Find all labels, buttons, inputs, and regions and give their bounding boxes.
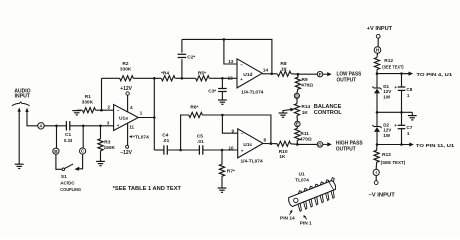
wire to C4 [154,149,164,151]
svg-text:−: − [240,62,243,67]
svg-text:1W: 1W [383,133,391,138]
node C [80,148,86,154]
resistor R5 [182,77,196,79]
svg-text:COUPLING: COUPLING [60,187,81,192]
svg-text:.01: .01 [163,138,170,144]
svg-text:OUTPUT: OUTPUT [337,77,357,83]
resistor R11 [296,140,298,144]
svg-text:R11: R11 [300,131,309,137]
svg-text:12V: 12V [383,89,392,94]
svg-text:0.33: 0.33 [64,138,73,143]
svg-text:12V: 12V [383,128,392,133]
resistor R10 [277,141,291,146]
wire U1d pin 13 [224,39,237,64]
node I [373,169,379,175]
svg-text:2: 2 [108,104,111,109]
junction [153,116,156,119]
wire to node G [297,143,317,145]
svg-text:R1: R1 [85,94,91,100]
svg-text:C3*: C3* [208,88,216,94]
svg-text:(SEE TEXT): (SEE TEXT) [381,160,406,165]
wire +12V rail [377,73,409,75]
wire U1d output [262,73,272,75]
svg-text:13: 13 [228,59,234,64]
svg-text:−V INPUT: −V INPUT [368,192,395,198]
resistor R8 [272,73,278,75]
svg-text:D2: D2 [383,122,389,127]
svg-text:C7: C7 [406,125,412,130]
svg-text:1: 1 [140,111,143,116]
svg-text:TO PIN 4, U1: TO PIN 4, U1 [416,72,452,78]
resistor R9 [297,74,299,77]
junction [55,125,58,128]
ground [15,163,24,165]
svg-text:E: E [296,122,299,127]
ground [218,99,227,101]
-V input terminal [375,176,377,181]
ground [96,160,105,162]
svg-text:U1: U1 [299,172,305,177]
zener D1 [376,74,378,88]
svg-text:U1d: U1d [243,72,252,78]
capacitor C7 [401,112,403,125]
low pass output arrow [323,73,329,75]
potentiometer R14 [296,98,298,103]
svg-text:OUTPUT: OUTPUT [336,147,356,153]
junction [400,143,403,146]
ground [279,112,288,114]
svg-text:+12V: +12V [120,86,132,92]
svg-text:+: + [241,149,244,154]
junction [221,77,224,80]
svg-text:G: G [318,142,322,147]
resistor R1 [72,110,81,112]
svg-text:R10: R10 [279,149,288,155]
junction [270,142,273,145]
svg-text:8: 8 [264,138,267,143]
ground [411,112,413,115]
wire R2 branch vertical [101,78,103,110]
svg-text:1K: 1K [279,154,286,160]
resistor R6 [181,115,189,150]
svg-text:R13: R13 [382,152,391,158]
junction [400,72,403,75]
junction [270,73,273,76]
svg-text:R6*: R6* [190,105,198,111]
capacitor C3 [221,78,223,88]
svg-text:C2*: C2* [187,55,195,61]
svg-text:C5: C5 [197,133,203,139]
svg-text:−12V: −12V [120,150,132,156]
svg-text:+: + [394,124,397,129]
resistor R7 [221,150,223,164]
svg-text:+: + [394,86,397,91]
wire to node F [298,73,317,75]
resistor R12 [376,53,379,57]
svg-text:470Ω: 470Ω [300,136,312,142]
IC U1 package [289,178,336,212]
svg-text:INPUT: INPUT [15,94,30,100]
junction [400,111,403,114]
svg-text:PIN 14: PIN 14 [280,215,295,221]
junction [181,77,184,80]
svg-text:(SEE TEXT): (SEE TEXT) [382,65,404,70]
junction [153,77,156,80]
wire U1a output [138,117,154,119]
high pass output arrow [323,143,329,145]
capacitor C2 [181,39,183,52]
svg-text:1K: 1K [302,110,309,116]
U1a -12V supply pin 11 [127,123,129,145]
svg-text:14: 14 [263,68,269,73]
svg-text:D1: D1 [383,84,389,89]
svg-text:R9: R9 [302,77,308,83]
svg-text:C8: C8 [406,87,412,92]
node B [53,148,59,154]
wire top feedback [182,39,272,73]
wire U1c output [263,143,277,145]
node E [295,121,300,126]
wire to U1a pin 2 [102,109,114,111]
capacitor C4 [163,145,165,154]
wire node C stem [82,126,84,148]
wire to node A [27,113,38,126]
svg-text:9: 9 [232,129,235,134]
wire vertical bus [153,78,155,150]
svg-text:.01: .01 [197,139,204,145]
node A [38,123,44,129]
op-amp U1d [237,59,262,88]
junction [376,72,379,75]
wire ground lead [18,113,20,164]
svg-text:R2: R2 [122,61,128,67]
svg-text:+V INPUT: +V INPUT [367,26,393,32]
wire C5 to U1c pin 10 [203,149,238,151]
resistor R3 [100,126,102,139]
svg-text:I: I [376,170,377,175]
svg-text:+: + [117,123,120,128]
junction [223,38,226,41]
wire C1 to U1a pin 3 [70,125,114,127]
svg-text:F: F [319,72,322,77]
wire to U1d pin 12 [222,77,237,79]
svg-text:R12: R12 [384,58,393,64]
svg-text:1: 1 [407,93,410,98]
svg-text:*R4: *R4 [161,71,169,77]
svg-text:−: − [241,131,244,136]
audio input arrow right [26,111,28,114]
wire to U1c pin 9 [222,115,237,133]
svg-text:CONTROL: CONTROL [314,110,343,116]
wire feedback to U1c output [222,115,271,144]
svg-text:PIN 1: PIN 1 [300,220,312,226]
op-amp U1c [238,129,263,158]
capacitor C1 [65,121,67,130]
wire C4 to C5 [167,149,199,151]
svg-text:1/4-TL074: 1/4-TL074 [241,159,263,165]
resistor R13 [376,145,378,151]
capacitor C5 [198,145,200,154]
zener D2 [376,112,378,126]
to pin 11 arrow [405,144,411,146]
junction [179,149,182,152]
svg-text:S1: S1 [61,174,67,180]
wire mid rail [377,111,412,113]
resistor R2 [102,77,120,79]
svg-text:*SEE TABLE 1 AND TEXT: *SEE TABLE 1 AND TEXT [113,186,182,192]
svg-text:11: 11 [129,125,134,130]
svg-text:TL074: TL074 [295,177,309,182]
audio input arrow left [18,111,20,114]
svg-text:1/4-TL074: 1/4-TL074 [241,90,263,96]
svg-text:R7*: R7* [227,169,235,175]
svg-text:470Ω: 470Ω [301,83,313,89]
junction [82,125,85,128]
switch S1 [56,154,62,169]
node G [317,142,323,148]
to pin 4 arrow [404,73,410,75]
svg-text:4: 4 [130,105,133,110]
op-amp U1a [114,105,139,131]
svg-text:R8: R8 [280,61,286,67]
wire node A to C1 [44,125,66,127]
svg-text:U1a: U1a [119,116,128,122]
TL074 label [129,135,132,138]
junction [99,125,102,128]
svg-text:−: − [117,108,120,113]
junction [221,114,224,117]
node F [317,72,322,77]
input bracket [12,102,30,106]
svg-text:AC/DC: AC/DC [60,181,75,186]
svg-text:1K: 1K [281,67,288,73]
svg-text:U1c: U1c [243,142,252,148]
wire node B stem [56,126,58,148]
svg-text:R14: R14 [301,104,310,110]
svg-text:*TL074: *TL074 [133,135,149,141]
svg-text:1: 1 [407,131,410,136]
U1a +12V supply pin 4 [127,95,129,111]
svg-text:C4: C4 [162,132,168,138]
svg-text:1W: 1W [383,95,391,100]
svg-text:TO PIN 11, U1: TO PIN 11, U1 [416,143,455,149]
wire -12V rail [377,144,409,146]
junction [376,111,379,114]
svg-text:10: 10 [229,145,235,150]
svg-text:R3: R3 [104,140,110,146]
junction [100,109,103,112]
R14 wiper [283,110,291,113]
node D [294,93,299,98]
svg-text:R5*: R5* [198,71,206,77]
resistor R4 [154,77,161,79]
junction [221,149,224,152]
svg-text:B: B [54,149,58,154]
junction [376,143,379,146]
svg-text:330K: 330K [82,100,94,106]
svg-text:150K: 150K [104,145,116,151]
svg-text:D: D [295,94,299,99]
junction [297,73,300,76]
svg-text:3: 3 [107,121,110,126]
node H [374,47,381,54]
capacitor C8 [401,74,403,87]
svg-text:330K: 330K [120,67,132,73]
junction [296,143,299,146]
ground [218,187,227,189]
